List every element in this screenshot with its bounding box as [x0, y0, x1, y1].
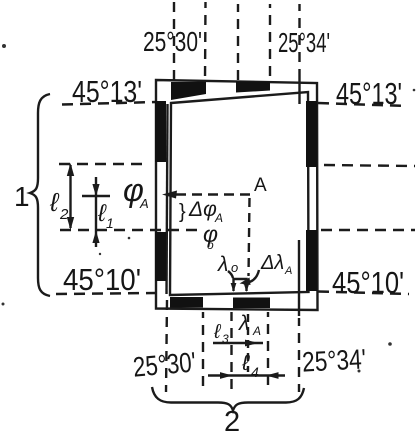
svg-text:A: A	[284, 265, 292, 277]
svg-text:2: 2	[59, 206, 69, 223]
svg-text:3: 3	[222, 332, 229, 346]
svg-text:ℓ: ℓ	[49, 187, 60, 217]
svg-text:45°10': 45°10'	[332, 265, 404, 300]
svg-text:A: A	[252, 324, 261, 338]
svg-text:25°34': 25°34'	[278, 27, 330, 58]
svg-text:2: 2	[224, 406, 240, 434]
svg-text:o: o	[231, 260, 238, 275]
svg-text:1: 1	[106, 215, 114, 231]
svg-text:25°30': 25°30'	[132, 346, 197, 382]
svg-text:Δλ: Δλ	[260, 252, 284, 274]
svg-text:25°30': 25°30'	[143, 26, 202, 57]
svg-text:λ: λ	[217, 253, 228, 276]
svg-text:45°13': 45°13'	[336, 76, 402, 111]
svg-text:A: A	[254, 175, 267, 196]
svg-text:o: o	[207, 238, 214, 252]
svg-text:A: A	[139, 196, 149, 211]
svg-text:25°34': 25°34'	[301, 343, 367, 377]
svg-text:}: }	[179, 201, 186, 223]
svg-text:Δφ: Δφ	[188, 198, 217, 221]
svg-text:ℓ: ℓ	[241, 350, 250, 375]
svg-text:45°13': 45°13'	[72, 74, 142, 109]
svg-text:45°10': 45°10'	[63, 262, 141, 297]
svg-text:4: 4	[251, 364, 259, 380]
svg-text:1: 1	[14, 181, 30, 212]
svg-text:λ: λ	[238, 312, 249, 335]
